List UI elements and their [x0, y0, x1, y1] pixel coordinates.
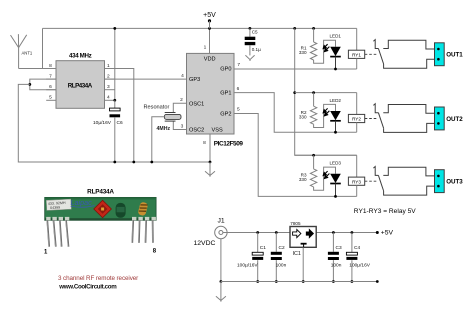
mechanical link RY2	[365, 118, 378, 120]
photo: gold coil	[138, 202, 149, 217]
resistor R2 330	[310, 106, 316, 124]
photo: label sticker	[46, 199, 71, 210]
svg-text:LED2: LED2	[330, 98, 342, 103]
wire +5V feed section 2	[295, 92, 357, 94]
RF receiver module RLP434A	[56, 61, 105, 109]
wire C3 to ground rail	[332, 260, 334, 281]
wire antenna to RLP pin 8	[19, 68, 56, 70]
wire contact 3 common terminal	[384, 186, 435, 195]
svg-text:7: 7	[237, 62, 240, 68]
wire contact 3 NO terminal	[383, 167, 434, 176]
svg-text:3: 3	[181, 123, 184, 129]
relay coil RY2	[348, 114, 364, 122]
svg-text:+5V: +5V	[203, 12, 216, 19]
photo: pins	[47, 220, 153, 246]
junction C5-top rail	[249, 27, 252, 30]
svg-text:RLP434A: RLP434A	[87, 188, 114, 195]
svg-text:C3: C3	[336, 245, 342, 251]
junction C4-output	[351, 231, 354, 234]
wire contact 1 common terminal	[384, 59, 435, 68]
junction rail-section 2	[293, 91, 296, 94]
svg-text:OUT2: OUT2	[446, 116, 463, 123]
+5V supply symbol (top)	[208, 19, 211, 22]
svg-text:RY3: RY3	[352, 179, 361, 184]
wire J1 to 7805 input	[223, 232, 290, 234]
wire OSC2 to resonator	[173, 121, 186, 129]
connector OUT2	[435, 107, 445, 130]
capacitor C1 100u/16V	[252, 233, 263, 260]
wire relay coil feed 1	[356, 28, 358, 50]
svg-text:C6: C6	[117, 120, 123, 126]
svg-text:C1: C1	[260, 245, 266, 251]
svg-text:4: 4	[181, 73, 184, 79]
ground (supply)	[216, 282, 226, 302]
junction VSS-ground rail	[209, 161, 212, 164]
svg-text:100n: 100n	[331, 263, 342, 269]
wire 7805 output to +5V	[316, 232, 377, 234]
svg-text:6: 6	[237, 86, 240, 92]
connector OUT3	[435, 170, 445, 193]
svg-text:OUT3: OUT3	[446, 179, 463, 186]
svg-text:2: 2	[180, 97, 183, 103]
svg-text:+5V: +5V	[381, 229, 394, 236]
svg-text:VSS: VSS	[212, 128, 223, 134]
svg-text:0.1µ: 0.1µ	[252, 47, 261, 52]
svg-text:434 MHz: 434 MHz	[69, 53, 92, 60]
svg-text:GP1: GP1	[220, 91, 231, 97]
svg-text:100µ/16V: 100µ/16V	[349, 263, 370, 269]
svg-text:5: 5	[49, 95, 52, 101]
wire GP0 to section 1 return	[234, 68, 357, 70]
wire R1 top	[313, 28, 315, 42]
LED2 emission arrows	[323, 108, 329, 115]
junction pin 4 / C6	[113, 99, 116, 102]
svg-text:330: 330	[299, 50, 307, 55]
wire RLP pin 4 to +5V rail	[114, 28, 116, 100]
svg-text:www.CoolCircuit.com: www.CoolCircuit.com	[58, 284, 117, 291]
resonator X1 4MHz	[164, 113, 181, 122]
wire relay coil 1 to return	[356, 58, 358, 69]
antenna ANT1	[11, 34, 27, 68]
svg-text:4MHz: 4MHz	[157, 126, 171, 132]
LED3	[330, 174, 341, 197]
RLP434A pin 5 (left)	[46, 99, 56, 101]
svg-text:330: 330	[299, 114, 307, 119]
capacitor C4 100u/16V	[346, 233, 357, 260]
wire RLP pins 7-6 tie	[30, 79, 56, 90]
wire J1 to ground rail	[220, 239, 222, 282]
wire R2 to LED2 anode	[314, 104, 336, 127]
wire +5V feed section 3	[295, 154, 357, 156]
wire RLP pin 1 to ground rail	[115, 69, 134, 163]
wire +5V top rail	[43, 27, 357, 29]
svg-text:OSC1: OSC1	[189, 101, 204, 107]
junction R1 branch	[312, 27, 315, 30]
RLP434A pin 2 (right)	[105, 78, 115, 80]
relay contact 2	[373, 104, 383, 128]
junction pins 6-7	[28, 83, 31, 86]
svg-text:10µ/16V: 10µ/16V	[93, 120, 112, 126]
LED1 emission arrows	[323, 44, 329, 51]
wire relay coil 3 to return	[356, 185, 358, 196]
svg-text:Resonator: Resonator	[144, 105, 170, 111]
wire relay coil feed 2	[356, 93, 358, 115]
ground (PIC)	[205, 162, 215, 177]
connector J1	[215, 226, 227, 238]
svg-text:100n: 100n	[276, 263, 287, 269]
junction ground rail end	[376, 280, 379, 283]
junction R3 branch	[312, 154, 315, 157]
wire RLP pin 2 to GP3	[105, 78, 187, 80]
relay contact 1	[373, 40, 383, 64]
svg-text:5: 5	[237, 106, 240, 112]
LED2	[330, 111, 341, 132]
svg-text:C2: C2	[279, 245, 285, 251]
junction C2-input	[275, 231, 278, 234]
wire OSC1 to resonator	[173, 103, 186, 112]
capacitor C5 0.1u	[245, 28, 256, 55]
svg-text:PIC12F509: PIC12F509	[214, 140, 244, 147]
junction top rail / C6 branch	[113, 27, 116, 30]
+5V supply symbol (bottom)	[376, 231, 379, 234]
svg-text:RY1-RY3 = Relay 5V: RY1-RY3 = Relay 5V	[354, 208, 416, 215]
svg-text:1: 1	[204, 45, 207, 51]
wire R3 top	[313, 155, 315, 169]
junction pin1-ground rail	[132, 161, 135, 164]
svg-text:VDD: VDD	[204, 56, 216, 62]
junction VDD-top rail	[208, 27, 211, 30]
PIC pin 1 / VDD stub	[209, 28, 211, 53]
wire 7805 ground pin	[302, 247, 304, 281]
wire C2 to ground rail	[275, 260, 277, 281]
RLP434A pin 4 (right)	[105, 99, 115, 101]
junction LED3-return	[334, 195, 337, 198]
RLP434A pin 6 (left)	[46, 89, 56, 91]
resistor R3 330	[310, 169, 316, 187]
microcontroller PIC12F509	[187, 53, 235, 134]
junction C3-ground	[332, 280, 335, 283]
relay coil RY3	[348, 177, 364, 185]
wire contact 2 common terminal	[384, 123, 435, 132]
svg-text:RLP434A: RLP434A	[68, 82, 93, 89]
wire GP1 to section 2 return	[234, 93, 357, 133]
svg-text:Laipac: Laipac	[71, 198, 93, 207]
svg-text:3: 3	[107, 84, 110, 90]
svg-text:ANT1: ANT1	[22, 51, 33, 56]
svg-text:RY2: RY2	[352, 117, 361, 122]
junction resonator-ground rail	[150, 161, 153, 164]
wire R1 to LED1 anode	[314, 40, 336, 63]
RLP434A pin 7 (left)	[46, 78, 56, 80]
LED3 emission arrows	[323, 171, 329, 178]
svg-text:GP3: GP3	[189, 77, 200, 83]
photo: Laipac logo	[71, 198, 95, 207]
junction C1-ground	[256, 280, 259, 283]
wire GP2 to section 3 return	[234, 114, 357, 197]
svg-text:8: 8	[49, 63, 52, 69]
wire C4 to ground rail	[351, 260, 353, 281]
wire relay coil 2 to return	[356, 123, 358, 133]
ground (C5)	[245, 55, 254, 61]
junction LED2-return	[334, 131, 337, 134]
svg-text:GP2: GP2	[220, 112, 231, 118]
junction C3-output	[332, 231, 335, 234]
junction C4-ground	[351, 280, 354, 283]
junction +5V rail	[293, 27, 296, 30]
wire resonator center tap to ground	[152, 117, 165, 162]
photo: red trimmer	[94, 200, 112, 217]
svg-text:330: 330	[299, 177, 307, 182]
junction J1-ground	[220, 280, 223, 283]
svg-text:100µ/16V: 100µ/16V	[237, 263, 258, 269]
svg-text:OUT1: OUT1	[446, 52, 463, 59]
svg-text:1: 1	[107, 63, 110, 69]
wire R2 top	[313, 93, 315, 107]
LED1	[330, 47, 341, 69]
relay coil RY1	[348, 50, 364, 58]
svg-text:7805: 7805	[290, 221, 301, 226]
svg-text:IC1: IC1	[293, 251, 301, 257]
wire R3 to LED3 anode	[314, 167, 336, 190]
junction 7805-ground	[302, 280, 305, 283]
photo: RLP434A PCB	[45, 197, 156, 220]
mechanical link RY3	[365, 180, 378, 182]
svg-text:GP0: GP0	[220, 66, 231, 72]
svg-text:4: 4	[107, 95, 110, 101]
RLP434A pin 1 (right)	[105, 68, 115, 70]
svg-text:C5: C5	[252, 30, 258, 35]
wire relay coil feed 3	[356, 155, 358, 177]
capacitor C3 100n	[328, 233, 339, 261]
wire C1 to ground rail	[257, 260, 259, 281]
RLP434A pin 8 (left)	[46, 68, 56, 70]
svg-text:J1: J1	[218, 217, 225, 224]
photo: solder pads	[46, 217, 156, 220]
RLP434A pin 3 (right)	[105, 89, 115, 91]
wire +5V rail down to section 3	[295, 28, 357, 155]
voltage regulator IC1 7805	[290, 227, 316, 248]
connector OUT1	[435, 43, 445, 66]
junction C2-ground	[275, 280, 278, 283]
svg-text:LED1: LED1	[330, 34, 342, 39]
junction C6-ground rail	[113, 161, 116, 164]
PIC pin 8 / VSS stub	[209, 134, 211, 162]
svg-text:6: 6	[49, 84, 52, 90]
junction C1-input	[256, 231, 259, 234]
wire contact 2 NO terminal	[383, 105, 434, 114]
junction R2 branch	[312, 91, 315, 94]
svg-text:C4: C4	[354, 245, 360, 251]
svg-text:8: 8	[203, 140, 206, 146]
photo: green inductor	[116, 203, 126, 218]
wire C6 to ground rail	[114, 117, 116, 162]
wire contact 1 NO terminal	[383, 40, 434, 49]
svg-text:RY1: RY1	[352, 52, 361, 57]
wire pin8 riser to +5V rail	[42, 28, 44, 68]
capacitor C6 10u/16V	[110, 100, 121, 117]
relay contact 3	[373, 167, 383, 191]
wire ground run left	[18, 84, 210, 162]
svg-text:LED3: LED3	[330, 161, 342, 166]
wire bottom ground rail	[221, 281, 377, 283]
resistor R1 330	[310, 42, 316, 60]
svg-text:7: 7	[49, 74, 52, 80]
svg-text:04399: 04399	[50, 205, 60, 210]
svg-text:3 channel RF remote receiver: 3 channel RF remote receiver	[58, 275, 138, 282]
svg-text:OSC2: OSC2	[189, 128, 204, 134]
junction LED1-return	[334, 68, 337, 71]
mechanical link RY1	[365, 53, 378, 55]
capacitor C2 100n	[271, 233, 282, 261]
svg-text:12VDC: 12VDC	[194, 240, 216, 247]
